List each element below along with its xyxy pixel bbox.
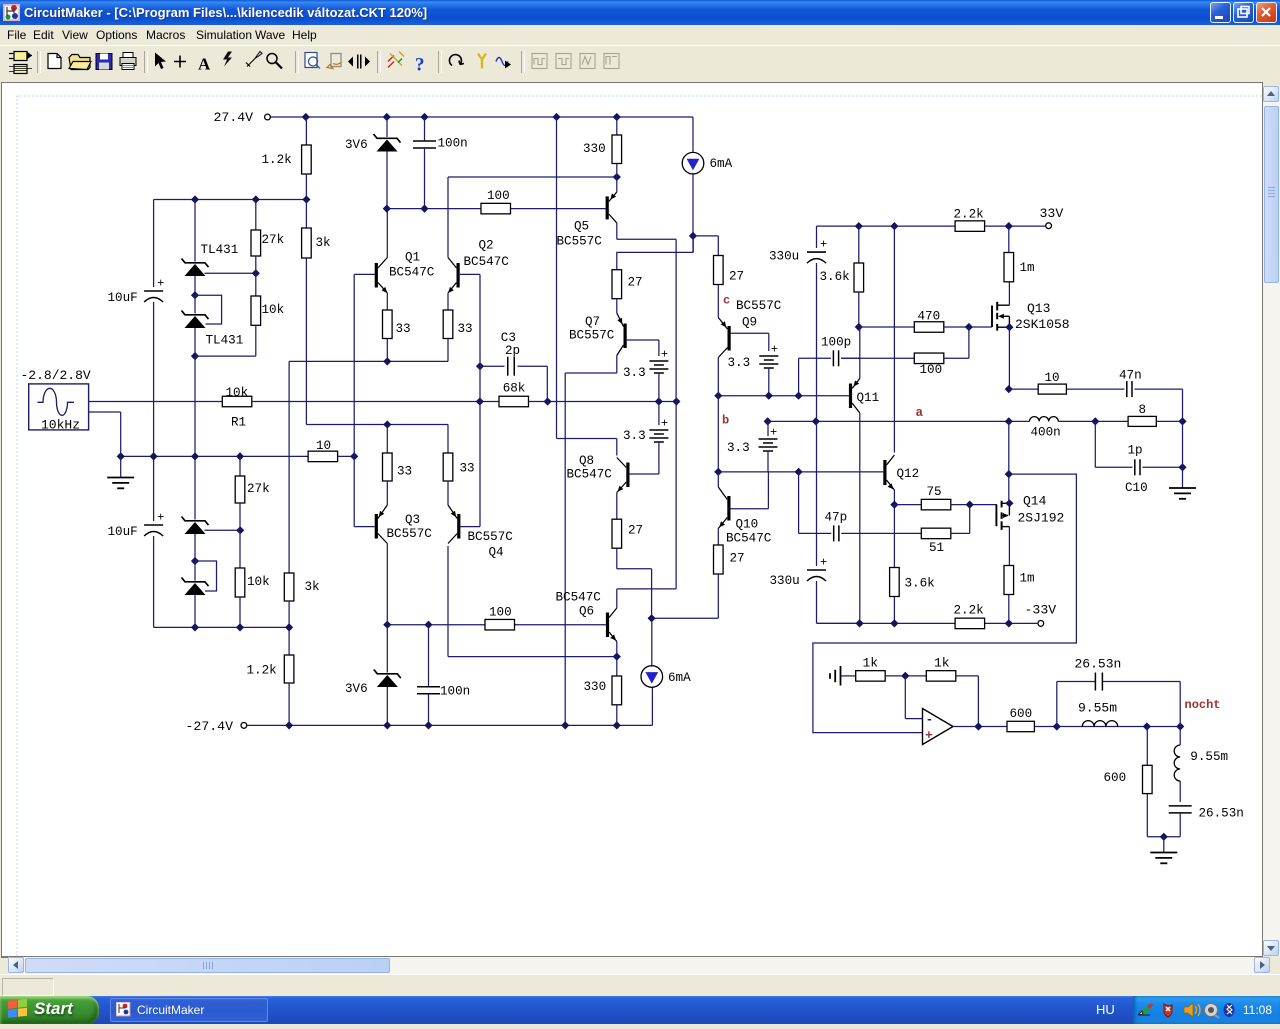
svg-text:47n: 47n (1119, 369, 1142, 383)
svg-text:33V: 33V (1040, 206, 1064, 221)
svg-text:10kHz: 10kHz (41, 418, 80, 433)
svg-text:1.2k: 1.2k (247, 664, 277, 678)
svg-text:10k: 10k (262, 303, 285, 317)
svg-text:2.2k: 2.2k (954, 208, 984, 222)
svg-text:1k: 1k (934, 656, 950, 671)
svg-text:2SJ192: 2SJ192 (1018, 511, 1065, 526)
svg-text:-27.4V: -27.4V (186, 719, 234, 734)
svg-text:C10: C10 (1125, 481, 1148, 495)
svg-text:a: a (916, 406, 924, 420)
svg-text:Q5: Q5 (574, 220, 589, 234)
svg-text:51: 51 (929, 541, 944, 555)
svg-text:3.3: 3.3 (623, 366, 646, 380)
svg-text:Q10: Q10 (736, 518, 759, 532)
svg-text:BC547C: BC547C (389, 266, 435, 280)
svg-text:68k: 68k (503, 382, 526, 396)
svg-text:-33V: -33V (1025, 603, 1057, 618)
svg-text:10uF: 10uF (108, 525, 138, 539)
svg-text:330u: 330u (769, 250, 799, 264)
svg-text:TL431: TL431 (206, 334, 244, 348)
svg-text:26.53n: 26.53n (1199, 807, 1244, 821)
svg-text:27: 27 (729, 270, 744, 284)
svg-text:470: 470 (918, 310, 941, 324)
svg-text:+: + (820, 556, 827, 570)
svg-text:100n: 100n (440, 685, 470, 699)
svg-text:+: + (925, 728, 933, 743)
svg-text:47p: 47p (825, 511, 848, 525)
svg-text:27k: 27k (247, 482, 270, 496)
svg-text:Q11: Q11 (857, 391, 880, 405)
svg-text:10: 10 (316, 439, 331, 453)
svg-text:100: 100 (920, 363, 943, 377)
svg-text:nocht: nocht (1185, 698, 1221, 712)
svg-text:Q8: Q8 (579, 454, 594, 468)
svg-text:BC547C: BC547C (464, 255, 510, 269)
svg-text:Q4: Q4 (489, 546, 504, 560)
svg-text:600: 600 (1104, 771, 1127, 785)
svg-text:27: 27 (730, 552, 745, 566)
svg-text:9.55m: 9.55m (1078, 701, 1117, 716)
svg-text:6mA: 6mA (668, 671, 691, 685)
svg-text:BC547C: BC547C (567, 468, 613, 482)
svg-text:1k: 1k (863, 656, 879, 671)
svg-text:c: c (723, 294, 730, 308)
svg-text:Q1: Q1 (405, 251, 420, 265)
svg-text:Q12: Q12 (897, 467, 920, 481)
svg-text:27: 27 (628, 276, 643, 290)
svg-text:3k: 3k (316, 236, 331, 250)
svg-text:8: 8 (1139, 403, 1147, 417)
svg-text:BC557C: BC557C (569, 329, 615, 343)
svg-text:33: 33 (460, 462, 475, 476)
svg-text:330: 330 (584, 680, 607, 694)
svg-text:+: + (820, 238, 827, 252)
svg-text:26.53n: 26.53n (1075, 657, 1122, 672)
svg-text:330u: 330u (770, 574, 800, 588)
svg-text:Q3: Q3 (405, 513, 420, 527)
svg-text:Q7: Q7 (585, 315, 600, 329)
svg-text:-2.8/2.8V: -2.8/2.8V (21, 368, 91, 383)
svg-text:9.55m: 9.55m (1190, 750, 1228, 764)
svg-text:3.6k: 3.6k (905, 577, 935, 591)
svg-text:BC557C: BC557C (468, 530, 514, 544)
svg-text:+: + (661, 348, 668, 362)
svg-text:-: - (926, 712, 934, 727)
svg-text:3.3: 3.3 (623, 429, 646, 443)
svg-text:1.2k: 1.2k (262, 153, 292, 167)
svg-text:100p: 100p (821, 336, 851, 350)
svg-text:C3: C3 (501, 331, 516, 345)
svg-text:1m: 1m (1020, 572, 1035, 586)
svg-text:3.6k: 3.6k (820, 270, 850, 284)
svg-text:TL431: TL431 (201, 243, 239, 257)
svg-text:3.3: 3.3 (727, 441, 750, 455)
svg-text:b: b (722, 414, 729, 428)
svg-text:+: + (157, 511, 164, 525)
svg-text:Q13: Q13 (1027, 301, 1050, 316)
svg-text:100n: 100n (438, 137, 468, 151)
svg-text:33: 33 (396, 322, 411, 336)
svg-text:330: 330 (583, 142, 606, 156)
svg-text:BC547C: BC547C (556, 591, 602, 605)
svg-text:3.3: 3.3 (728, 356, 751, 370)
svg-text:1p: 1p (1128, 444, 1143, 458)
svg-text:+: + (661, 417, 668, 431)
svg-text:10uF: 10uF (108, 291, 138, 305)
svg-text:+: + (771, 343, 778, 357)
svg-text:BC557C: BC557C (736, 299, 782, 313)
svg-text:27.4V: 27.4V (214, 110, 254, 125)
svg-text:100: 100 (487, 189, 510, 203)
svg-text:10: 10 (1045, 371, 1060, 385)
svg-text:600: 600 (1010, 707, 1033, 721)
svg-text:27k: 27k (262, 233, 285, 247)
svg-text:BC557C: BC557C (557, 235, 603, 249)
svg-text:100: 100 (489, 606, 512, 620)
svg-text:R1: R1 (231, 415, 246, 429)
svg-text:+: + (770, 426, 777, 440)
svg-text:33: 33 (397, 465, 412, 479)
svg-text:2SK1058: 2SK1058 (1015, 317, 1070, 332)
svg-text:3V6: 3V6 (345, 682, 368, 696)
svg-text:Q14: Q14 (1023, 494, 1047, 509)
svg-text:1m: 1m (1020, 261, 1035, 275)
svg-text:BC557C: BC557C (387, 527, 433, 541)
svg-text:Q6: Q6 (579, 605, 594, 619)
svg-text:33: 33 (458, 322, 473, 336)
svg-text:2p: 2p (505, 344, 520, 358)
svg-text:BC547C: BC547C (726, 532, 772, 546)
svg-text:75: 75 (927, 485, 942, 499)
svg-text:2.2k: 2.2k (954, 604, 984, 618)
svg-text:400n: 400n (1031, 426, 1061, 440)
svg-text:Q2: Q2 (479, 239, 494, 253)
svg-text:3V6: 3V6 (345, 138, 368, 152)
svg-text:Q9: Q9 (742, 316, 757, 330)
svg-text:3k: 3k (305, 580, 320, 594)
svg-text:10k: 10k (247, 575, 270, 589)
svg-text:6mA: 6mA (710, 157, 733, 171)
svg-text:+: + (157, 277, 164, 291)
svg-text:27: 27 (628, 524, 643, 538)
svg-text:10k: 10k (226, 386, 249, 400)
